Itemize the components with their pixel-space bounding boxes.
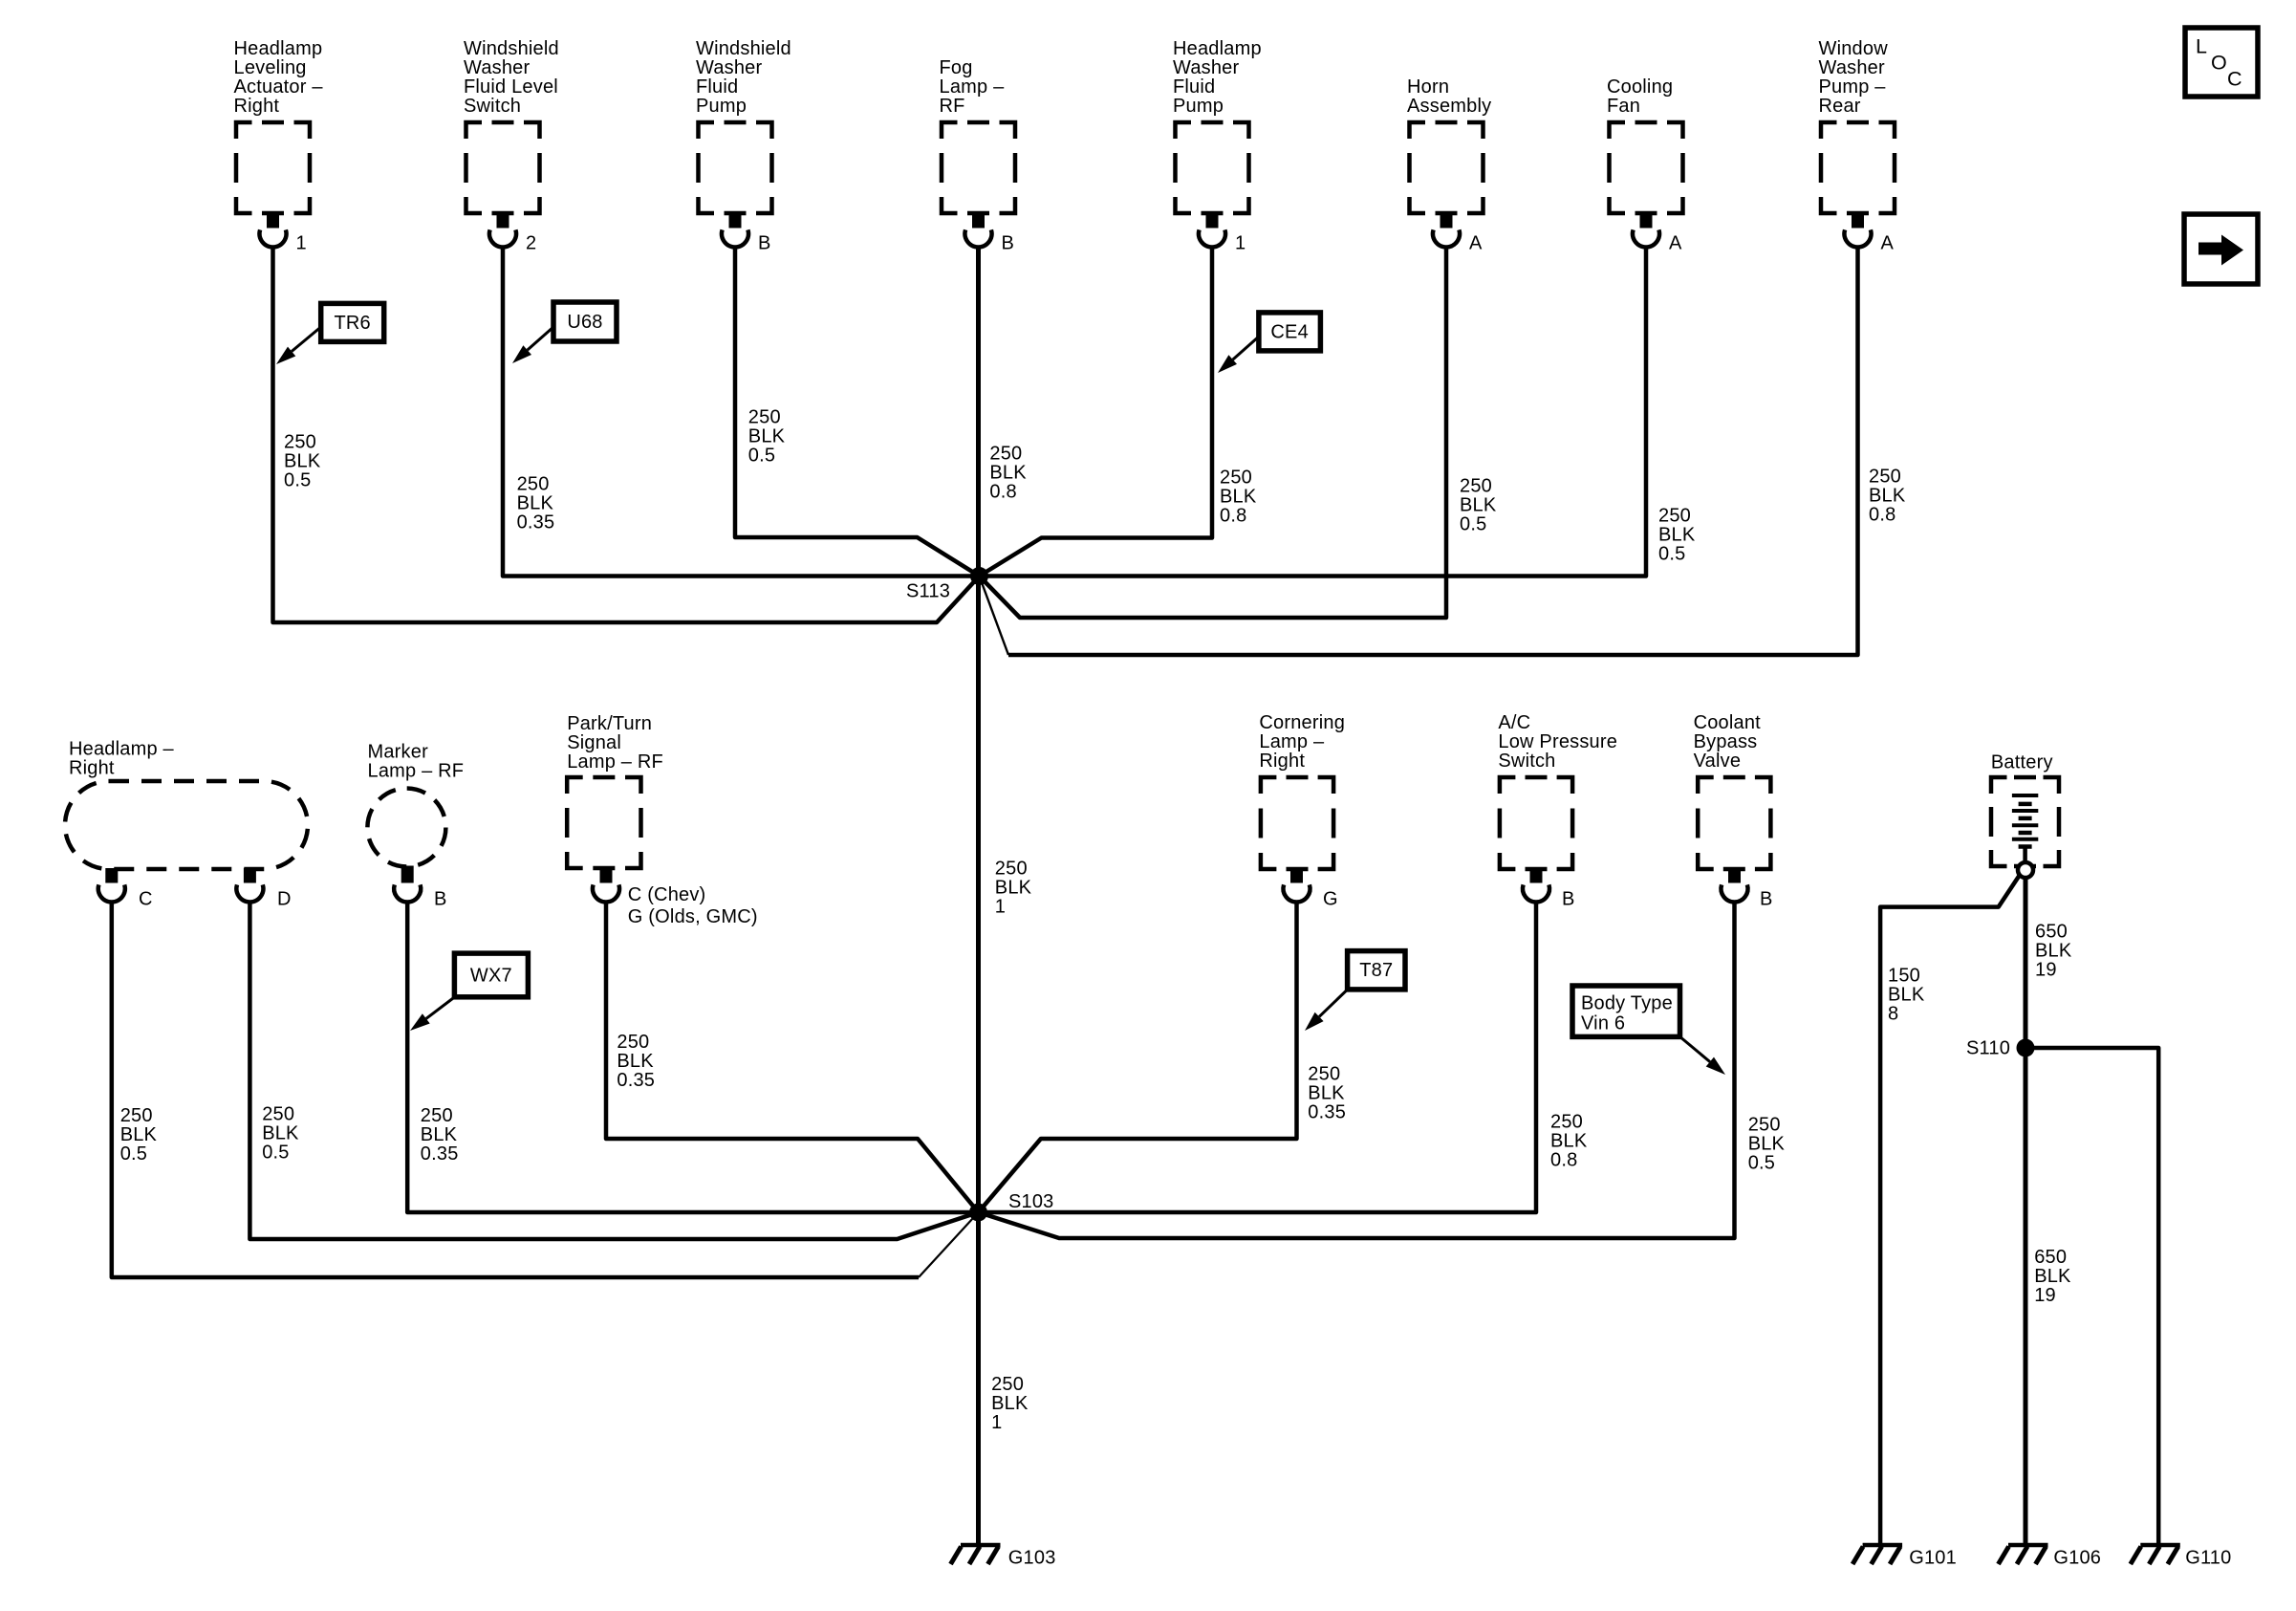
svg-text:250BLK0.35: 250BLK0.35 [617,1032,655,1091]
svg-text:S103: S103 [1008,1191,1054,1212]
wire battery to G101 (150 BLK 8) [1880,875,2020,1545]
wire from headlamp leveling actuator to S113 [273,247,980,622]
svg-text:D: D [277,888,292,909]
wire from horn assembly to S113 [980,247,1447,618]
battery negative terminal [2018,862,2033,878]
headlamp leveling actuator right connector [234,38,324,253]
headlamp right pin D [236,868,291,909]
cornering lamp pin G [1284,868,1338,909]
svg-text:1: 1 [296,232,307,253]
headlamp right pin C [98,868,153,909]
svg-text:L: L [2196,35,2207,58]
svg-text:B: B [1562,888,1575,909]
wire from cooling fan to S113 [980,247,1647,577]
coolant bypass valve connector [1694,712,1771,869]
svg-text:TR6: TR6 [335,313,371,334]
marker lamp pin B [394,866,446,910]
svg-text:G103: G103 [1008,1548,1056,1569]
wire marker lamp to S103 [407,902,978,1212]
svg-text:G: G [1323,888,1338,909]
svg-text:T87: T87 [1359,960,1393,981]
wire battery to S110 and G106 (650 BLK 19) [2024,878,2028,1545]
svg-text:1: 1 [1235,232,1245,253]
wire from windshield washer fluid pump to S113 [735,247,980,577]
ground G103 [951,1545,1056,1569]
park/turn pin C (Chev) G (Olds, GMC) [593,867,758,927]
svg-text:S113: S113 [906,580,950,601]
headlamp washer fluid pump connector [1173,38,1262,253]
wire S103 to ground G103 [976,1212,981,1545]
svg-text:G (Olds, GMC): G (Olds, GMC) [628,906,758,927]
svg-text:U68: U68 [567,312,602,333]
fog lamp RF connector [940,57,1016,253]
option code U68 [512,302,617,363]
option code WX7 [410,953,528,1031]
park/turn signal lamp RF connector [567,713,663,868]
wire park/turn lamp to S103 [606,902,979,1212]
headlamp right lamp assembly [65,738,308,869]
svg-text:250BLK0.35: 250BLK0.35 [517,473,555,533]
svg-text:Battery: Battery [1991,751,2053,773]
windshield washer fluid pump connector [696,38,791,253]
svg-text:G110: G110 [2185,1548,2231,1569]
wire A/C switch to S103 [979,902,1537,1212]
svg-text:C (Chev): C (Chev) [628,884,706,905]
option code CE4 [1218,313,1320,373]
coolant bypass valve pin B [1722,868,1773,909]
cooling fan connector [1607,76,1683,253]
svg-text:G101: G101 [1909,1548,1957,1569]
battery [1991,751,2059,866]
svg-text:S110: S110 [1966,1037,2010,1058]
wire from headlamp washer fluid pump to S113 [980,247,1213,577]
wire from window washer pump rear to S113 [1008,247,1858,655]
svg-text:O: O [2211,52,2227,75]
svg-text:B: B [434,888,447,909]
ground G106 [1999,1545,2102,1569]
ground G110 [2131,1545,2232,1569]
horn assembly connector [1407,76,1491,253]
svg-text:250BLK0.35: 250BLK0.35 [1308,1064,1346,1123]
wire S110 to G110 (650 BLK 19) [2025,1048,2158,1545]
window washer pump rear connector [1819,38,1895,253]
LOC legend box [2185,28,2258,97]
cornering lamp right connector [1259,712,1345,869]
option code TR6 [276,303,384,364]
svg-text:G106: G106 [2053,1548,2101,1569]
svg-text:Body Type: Body Type [1581,992,1673,1013]
wire headlamp pin C to S103 [112,902,919,1277]
wire from fog lamp through S113 down to S103 [976,247,981,1212]
marker lamp RF [367,741,464,866]
note Body Type Vin 6 [1572,986,1725,1075]
svg-text:B: B [1760,888,1773,909]
A/C low pressure switch connector [1498,712,1617,869]
svg-text:C: C [139,888,153,909]
svg-text:B: B [758,232,771,253]
A/C low pressure switch pin B [1523,868,1575,909]
svg-text:2: 2 [526,232,536,253]
svg-text:250BLK0.35: 250BLK0.35 [421,1105,459,1165]
svg-text:WX7: WX7 [470,965,512,986]
splice node S103 [969,1191,1054,1221]
option code T87 [1305,951,1405,1031]
wire headlamp pin D to S103 [249,902,978,1239]
wire from washer fluid level switch to S113 [503,247,980,577]
wire cornering lamp to S103 [979,902,1297,1212]
svg-text:CE4: CE4 [1270,321,1309,342]
splice node S113 [906,567,988,601]
svg-text:B: B [1002,232,1015,253]
svg-text:A: A [1669,232,1682,253]
wire coolant bypass valve to S103 [979,902,1735,1238]
svg-text:A: A [1469,232,1483,253]
arrow legend box [2184,214,2258,284]
svg-text:A: A [1881,232,1895,253]
windshield washer fluid level switch connector [464,38,559,253]
splice node S110 [1966,1037,2035,1058]
svg-text:Vin 6: Vin 6 [1581,1012,1625,1034]
ground G101 [1852,1545,1957,1569]
svg-text:C: C [2227,68,2242,91]
